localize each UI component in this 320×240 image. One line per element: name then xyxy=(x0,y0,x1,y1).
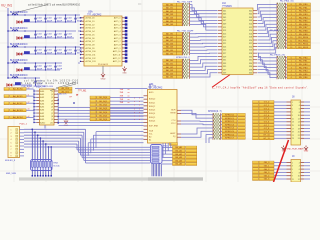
svg-text:RU_FB6: RU_FB6 xyxy=(299,77,308,79)
svg-text:xx: xx xyxy=(128,99,130,101)
svg-text:5: 5 xyxy=(292,169,293,171)
svg-text:Q6: Q6 xyxy=(51,110,53,112)
svg-text:x3: x3 xyxy=(28,109,30,111)
svg-text:KPROC6: KPROC6 xyxy=(225,134,235,136)
svg-text:x: x xyxy=(134,108,135,110)
svg-text:KPROC0: KPROC0 xyxy=(225,115,235,117)
svg-text:308: 308 xyxy=(249,20,252,22)
svg-text:B0DQ5: B0DQ5 xyxy=(149,117,155,119)
svg-text:GT_3: GT_3 xyxy=(264,112,270,114)
svg-text:20: 20 xyxy=(298,132,300,134)
svg-text:4: 4 xyxy=(299,105,300,107)
svg-text:B0_DQ1: B0_DQ1 xyxy=(99,101,108,103)
svg-text:318: 318 xyxy=(249,37,252,39)
svg-text:x: x xyxy=(134,119,135,121)
svg-text:AD_B1: AD_B1 xyxy=(166,36,174,39)
svg-text:7: 7 xyxy=(291,27,292,29)
svg-text:C104: C104 xyxy=(67,17,72,19)
svg-text:335: 335 xyxy=(223,66,226,68)
svg-text:11: 11 xyxy=(290,40,292,42)
svg-text:x: x xyxy=(139,101,140,103)
svg-text:A1T00_D13: A1T00_D13 xyxy=(86,60,96,63)
svg-text:A1T00_D9: A1T00_D9 xyxy=(86,47,95,50)
svg-text:338: 338 xyxy=(249,69,252,71)
svg-text:C104: C104 xyxy=(57,33,62,35)
svg-text:3: 3 xyxy=(11,136,12,138)
svg-text:B0_DQ3: B0_DQ3 xyxy=(99,108,108,110)
svg-text:U34: U34 xyxy=(149,83,154,86)
svg-text:329: 329 xyxy=(223,56,226,58)
svg-text:Q9: Q9 xyxy=(51,119,53,121)
svg-text:GND: GND xyxy=(101,79,106,81)
svg-text:RU_FB3: RU_FB3 xyxy=(299,67,308,69)
svg-text:C104: C104 xyxy=(57,49,62,51)
svg-text:2: 2 xyxy=(11,133,12,135)
svg-text:11: 11 xyxy=(292,179,294,181)
svg-text:100nF: 100nF xyxy=(37,69,43,71)
svg-text:4: 4 xyxy=(291,71,292,73)
svg-text:100nF: 100nF xyxy=(47,69,53,71)
svg-text:332: 332 xyxy=(249,60,252,62)
svg-text:A1T00_D11: A1T00_D11 xyxy=(86,54,96,57)
svg-text:RU_FB4: RU_FB4 xyxy=(299,71,308,73)
svg-text:5: 5 xyxy=(291,21,292,23)
svg-text:314: 314 xyxy=(249,30,252,32)
svg-text:AD_B4: AD_B4 xyxy=(166,72,174,75)
svg-text:KPROC5: KPROC5 xyxy=(225,131,235,133)
svg-text:A1: A1 xyxy=(149,139,151,142)
svg-text:Q4: Q4 xyxy=(51,103,53,105)
svg-text:8: 8 xyxy=(299,172,300,174)
svg-text:7: 7 xyxy=(292,172,293,174)
svg-text:A0T5_9: A0T5_9 xyxy=(114,47,121,50)
svg-text:A0_BCK2: A0_BCK2 xyxy=(13,102,23,105)
svg-text:2: 2 xyxy=(291,64,292,66)
svg-text:B0_A0: B0_A0 xyxy=(175,146,182,149)
svg-text:C104: C104 xyxy=(57,17,62,19)
svg-text:10: 10 xyxy=(298,176,300,178)
svg-text:GT_8: GT_8 xyxy=(264,128,270,130)
svg-text:8: 8 xyxy=(291,31,292,33)
svg-text:col filtering fix 5% 1: col filtering fix 5% 10SC9-C00 xyxy=(24,79,79,82)
svg-text:Q7: Q7 xyxy=(51,113,53,115)
svg-text:AGBT: AGBT xyxy=(170,132,176,135)
svg-text:8x 10k: 8x 10k xyxy=(54,165,61,167)
svg-text:4: 4 xyxy=(291,17,292,19)
svg-text:324: 324 xyxy=(249,46,252,48)
svg-text:1: 1 xyxy=(292,102,293,104)
svg-text:RU_FB5: RU_FB5 xyxy=(299,74,308,76)
svg-text:CTL/: CTL/ xyxy=(171,120,176,122)
svg-text:B0_DQ5: B0_DQ5 xyxy=(99,115,108,117)
svg-text:100nF: 100nF xyxy=(37,37,43,39)
svg-text:A1T00_D5: A1T00_D5 xyxy=(86,33,95,36)
svg-text:xx: xx xyxy=(128,89,130,91)
svg-text:A0T5_12: A0T5_12 xyxy=(113,57,121,60)
svg-text:310: 310 xyxy=(249,23,252,25)
svg-text:12: 12 xyxy=(290,44,292,46)
svg-text:315: 315 xyxy=(223,33,226,35)
svg-text:A0T5_6: A0T5_6 xyxy=(114,37,121,40)
svg-text:VU_IN1: VU_IN1 xyxy=(1,4,12,8)
svg-text:B0_DQ2: B0_DQ2 xyxy=(99,105,108,107)
svg-text:A1T00_D4: A1T00_D4 xyxy=(86,30,95,33)
svg-text:GB_5: GB_5 xyxy=(264,179,270,181)
svg-text:5: 5 xyxy=(291,74,292,76)
svg-text:RU_FB0: RU_FB0 xyxy=(299,4,308,6)
svg-text:14: 14 xyxy=(298,122,300,124)
svg-text:24: 24 xyxy=(298,138,300,140)
svg-text:A0T5_10: A0T5_10 xyxy=(113,50,121,53)
svg-text:GB_0: GB_0 xyxy=(264,162,270,164)
svg-text:B0_DQ6: B0_DQ6 xyxy=(99,119,108,121)
svg-text:col brd| Nole 10273 col w: col brd| Nole 10273 col www.BLKORB40010 xyxy=(28,4,81,7)
svg-text:16: 16 xyxy=(298,125,300,127)
svg-text:3 cap BOM2 mode: 10SC: 3 cap BOM2 mode: 10SC9-C00 xyxy=(21,83,79,85)
svg-text:317: 317 xyxy=(223,37,226,39)
svg-text:301: 301 xyxy=(223,10,226,12)
svg-text:RU_FB2: RU_FB2 xyxy=(299,11,308,13)
svg-text:A1T00_D0: A1T00_D0 xyxy=(86,17,95,20)
svg-text:9: 9 xyxy=(291,34,292,36)
svg-text:RU_FB10: RU_FB10 xyxy=(298,37,308,39)
svg-text:325: 325 xyxy=(223,50,226,52)
svg-text:xx: xx xyxy=(128,102,130,104)
svg-text:100nF: 100nF xyxy=(47,37,53,39)
svg-text:GND: GND xyxy=(122,73,127,75)
svg-text:RU_FB7: RU_FB7 xyxy=(299,27,308,29)
svg-text:302: 302 xyxy=(249,10,252,12)
svg-text:KPROC2(0..7): KPROC2(0..7) xyxy=(176,57,190,59)
svg-text:B0DQ3: B0DQ3 xyxy=(149,110,155,112)
svg-text:RU_FB12: RU_FB12 xyxy=(298,44,308,46)
svg-text:▶: ▶ xyxy=(77,93,79,96)
svg-text:4: 4 xyxy=(11,139,12,141)
svg-text:AD_B2: AD_B2 xyxy=(166,66,174,69)
svg-text:AD_B0: AD_B0 xyxy=(166,33,174,36)
svg-text:C104: C104 xyxy=(67,49,72,51)
svg-text:C104: C104 xyxy=(57,65,62,67)
svg-text:100nF: 100nF xyxy=(67,21,73,23)
svg-text:336: 336 xyxy=(249,66,252,68)
svg-text:RU_FB5: RU_FB5 xyxy=(299,21,308,23)
svg-text:A0T5_2: A0T5_2 xyxy=(114,23,121,26)
svg-text:AD_B4: AD_B4 xyxy=(166,46,174,49)
svg-text:x: x xyxy=(139,105,140,107)
svg-text:323: 323 xyxy=(223,46,226,48)
svg-text:22: 22 xyxy=(298,135,300,137)
svg-text:x: x xyxy=(134,112,135,114)
svg-text:KPROC3: KPROC3 xyxy=(225,124,235,126)
svg-text:A1T00_D10: A1T00_D10 xyxy=(86,50,96,53)
svg-text:328: 328 xyxy=(249,53,252,55)
svg-text:6: 6 xyxy=(299,108,300,110)
svg-text:4: 4 xyxy=(299,166,300,168)
svg-text:100nF: 100nF xyxy=(67,37,73,39)
svg-text:AD_B2: AD_B2 xyxy=(166,10,174,13)
svg-text:A015: A015 xyxy=(149,91,153,94)
svg-text:B0DQ6: B0DQ6 xyxy=(149,121,155,123)
svg-text:x: x xyxy=(134,101,135,103)
svg-text:334: 334 xyxy=(249,63,252,65)
svg-text:RU_FB9: RU_FB9 xyxy=(299,34,308,36)
svg-text:???_A0CPA2: ???_A0CPA2 xyxy=(87,14,102,17)
svg-text:18: 18 xyxy=(298,128,300,130)
svg-text:Q1: Q1 xyxy=(51,94,53,96)
svg-text:A0T5_13: A0T5_13 xyxy=(113,60,121,63)
svg-text:???_M1: ???_M1 xyxy=(78,91,87,93)
svg-text:TERM: TERM xyxy=(170,112,176,114)
svg-text:x4: x4 xyxy=(28,116,30,118)
svg-text:3: 3 xyxy=(292,166,293,168)
svg-text:17: 17 xyxy=(292,128,294,130)
svg-text:303: 303 xyxy=(223,14,226,16)
svg-text:PJ45_1: PJ45_1 xyxy=(20,123,28,125)
svg-text:C104: C104 xyxy=(37,65,42,67)
svg-text:1: 1 xyxy=(11,129,12,131)
svg-text:9: 9 xyxy=(292,115,293,117)
svg-text:C104: C104 xyxy=(37,17,42,19)
svg-text:100nF: 100nF xyxy=(57,53,63,55)
svg-text:326: 326 xyxy=(249,50,252,52)
svg-text:Q8: Q8 xyxy=(51,116,53,118)
svg-text:AD_B5: AD_B5 xyxy=(166,20,174,23)
svg-text:333: 333 xyxy=(223,63,226,65)
svg-text:RU_FB11: RU_FB11 xyxy=(299,40,309,42)
svg-text:1: 1 xyxy=(292,162,293,164)
svg-text:337: 337 xyxy=(223,69,226,71)
svg-text:x1: x1 xyxy=(28,95,30,97)
svg-text:12: 12 xyxy=(298,118,300,120)
svg-text:RU_FB8: RU_FB8 xyxy=(299,31,308,33)
svg-text:AD_B3: AD_B3 xyxy=(166,13,174,16)
svg-text:100nF: 100nF xyxy=(57,37,63,39)
svg-text:AD_B3: AD_B3 xyxy=(166,69,174,72)
svg-text:A0T5_1: A0T5_1 xyxy=(114,20,121,23)
svg-text:3: 3 xyxy=(292,105,293,107)
svg-text:C_???_C4_I bap/Ne "Abt35pdf": C_???_C4_I bap/Ne "Abt35pdf" pag 16 "Dat… xyxy=(212,87,308,90)
svg-text:xx: xx xyxy=(128,92,130,94)
svg-text:KPROC1: KPROC1 xyxy=(225,118,235,120)
svg-text:8: 8 xyxy=(299,112,300,114)
svg-text:A0: A0 xyxy=(149,136,151,139)
svg-text:GND: GND xyxy=(304,151,309,153)
svg-text:A0_BCK4: A0_BCK4 xyxy=(13,116,23,119)
svg-text:AD_B2: AD_B2 xyxy=(166,39,174,42)
svg-text:RU_FB4: RU_FB4 xyxy=(299,17,308,19)
svg-text:AD_B1: AD_B1 xyxy=(166,7,174,10)
svg-text:GT_5: GT_5 xyxy=(264,118,270,120)
svg-text:SCL: SCL xyxy=(149,134,153,136)
svg-text:GT_1: GT_1 xyxy=(264,105,270,107)
svg-text:307: 307 xyxy=(223,20,226,22)
svg-text:CTL2: CTL2 xyxy=(171,123,176,125)
svg-text:321: 321 xyxy=(223,43,226,45)
svg-text:1: 1 xyxy=(291,7,292,9)
svg-text:6: 6 xyxy=(291,24,292,26)
svg-text:311: 311 xyxy=(223,27,226,29)
svg-text:P100 A015: P100 A015 xyxy=(98,63,109,66)
svg-text:GT_2: GT_2 xyxy=(264,108,270,110)
svg-text:A0T5_7: A0T5_7 xyxy=(114,40,121,43)
svg-text:GT_9: GT_9 xyxy=(264,131,270,133)
svg-text:GND_PLAT_WAV8: GND_PLAT_WAV8 xyxy=(287,147,305,150)
svg-text:C104: C104 xyxy=(47,49,52,51)
svg-text:304: 304 xyxy=(249,14,252,16)
svg-text:AD_B6: AD_B6 xyxy=(166,23,174,26)
svg-text:x: x xyxy=(139,116,140,118)
svg-text:15: 15 xyxy=(292,125,294,127)
svg-text:KPROC(0..7): KPROC(0..7) xyxy=(208,111,222,113)
svg-text:B0DQ4: B0DQ4 xyxy=(149,113,155,115)
svg-text:2: 2 xyxy=(291,11,292,13)
svg-text:GT_6: GT_6 xyxy=(264,122,270,124)
svg-text:9: 9 xyxy=(11,156,12,158)
svg-text:Q10: Q10 xyxy=(50,122,53,124)
svg-text:19: 19 xyxy=(292,132,294,134)
svg-text:RU_FB13: RU_FB13 xyxy=(298,47,308,49)
svg-text:5: 5 xyxy=(292,108,293,110)
svg-text:KPROC4: KPROC4 xyxy=(225,128,235,130)
svg-text:306: 306 xyxy=(249,17,252,19)
svg-text:x: x xyxy=(139,119,140,121)
svg-text:C104: C104 xyxy=(47,33,52,35)
svg-text:100nF: 100nF xyxy=(57,69,63,71)
svg-text:A0T5_5: A0T5_5 xyxy=(114,33,121,36)
svg-text:A1T00_D12: A1T00_D12 xyxy=(86,57,96,60)
svg-text:KPROC7: KPROC7 xyxy=(225,138,235,140)
svg-text:A0T5_11: A0T5_11 xyxy=(113,54,121,57)
svg-text:A0_BCK3: A0_BCK3 xyxy=(13,109,23,112)
svg-text:0: 0 xyxy=(291,4,292,6)
svg-text:309: 309 xyxy=(223,23,226,25)
svg-text:313: 313 xyxy=(223,30,226,32)
svg-text:KPROC2: KPROC2 xyxy=(225,121,235,123)
svg-text:Q3: Q3 xyxy=(51,100,53,102)
svg-text:B0_DQ0: B0_DQ0 xyxy=(99,97,108,99)
svg-text:100nF: 100nF xyxy=(47,21,53,23)
svg-text:RU_FB6: RU_FB6 xyxy=(299,24,308,26)
svg-text:B0_A1: B0_A1 xyxy=(175,150,182,153)
svg-text:6: 6 xyxy=(11,146,12,148)
svg-text:A0T5_4: A0T5_4 xyxy=(114,30,121,33)
svg-text:M09_55W: M09_55W xyxy=(6,173,17,175)
svg-text:A1T00_D8: A1T00_D8 xyxy=(86,43,95,46)
svg-text:B0DQ2: B0DQ2 xyxy=(149,106,155,108)
svg-text:C104: C104 xyxy=(47,17,52,19)
svg-text:21: 21 xyxy=(292,135,294,137)
svg-text:BUF_ENB: BUF_ENB xyxy=(149,126,158,128)
svg-text:RU_FB1: RU_FB1 xyxy=(299,7,308,9)
svg-text:x: x xyxy=(134,105,135,107)
svg-text:5: 5 xyxy=(11,143,12,145)
svg-text:23: 23 xyxy=(292,138,294,140)
svg-text:RU_FB(0..15): RU_FB(0..15) xyxy=(280,1,294,3)
svg-text:320: 320 xyxy=(249,40,252,42)
svg-text:RU_FB0: RU_FB0 xyxy=(299,57,308,59)
svg-text:AD_B0: AD_B0 xyxy=(166,59,174,62)
svg-text:GT_10: GT_10 xyxy=(263,135,270,137)
svg-text:13: 13 xyxy=(292,122,294,124)
svg-text:A0T5_3: A0T5_3 xyxy=(114,27,121,30)
svg-text:3: 3 xyxy=(291,67,292,69)
svg-text:GT_0: GT_0 xyxy=(264,102,270,104)
svg-text:RU_FB3: RU_FB3 xyxy=(299,14,308,16)
svg-text:339: 339 xyxy=(223,73,226,75)
svg-text:???_A0CPA2: ???_A0CPA2 xyxy=(148,87,163,90)
svg-text:11: 11 xyxy=(292,118,294,120)
svg-text:1: 1 xyxy=(291,61,292,63)
svg-text:10: 10 xyxy=(290,37,292,39)
svg-text:A0_BCK0: A0_BCK0 xyxy=(13,88,23,91)
svg-text:330: 330 xyxy=(249,56,252,58)
svg-text:A0T5_0: A0T5_0 xyxy=(114,17,121,20)
svg-text:x2: x2 xyxy=(28,102,30,104)
svg-text:RU_FB2: RU_FB2 xyxy=(299,64,308,66)
svg-text:xx: xx xyxy=(128,96,130,98)
svg-text:A1T00_D1: A1T00_D1 xyxy=(86,20,95,23)
svg-text:x: x xyxy=(139,97,140,99)
svg-text:100nF: 100nF xyxy=(37,53,43,55)
svg-text:x: x xyxy=(139,112,140,114)
svg-text:GT_7: GT_7 xyxy=(264,125,270,127)
svg-text:100nF: 100nF xyxy=(37,21,43,23)
svg-text:GB_3: GB_3 xyxy=(264,172,270,174)
svg-text:AD_B6: AD_B6 xyxy=(166,52,174,55)
svg-text:8: 8 xyxy=(11,152,12,154)
svg-text:B0_A4: B0_A4 xyxy=(175,159,182,162)
svg-text:x: x xyxy=(134,97,135,99)
svg-text:12: 12 xyxy=(298,179,300,181)
svg-text:Q0: Q0 xyxy=(51,91,53,93)
svg-text:x0: x0 xyxy=(28,87,30,89)
svg-text:A0T5_8: A0T5_8 xyxy=(114,43,121,46)
svg-text:312: 312 xyxy=(249,27,252,29)
svg-text:GT_11: GT_11 xyxy=(263,138,270,140)
svg-text:327: 327 xyxy=(223,53,226,55)
svg-text:BUF/: BUF/ xyxy=(171,109,176,111)
svg-text:RU_FB1: RU_FB1 xyxy=(299,61,308,63)
svg-text:2: 2 xyxy=(299,102,300,104)
svg-text:Q2: Q2 xyxy=(51,97,53,99)
svg-text:7: 7 xyxy=(11,149,12,151)
svg-text:305: 305 xyxy=(223,17,226,19)
svg-text:322: 322 xyxy=(249,43,252,45)
svg-text:A1T00_D3: A1T00_D3 xyxy=(86,27,95,30)
svg-text:GT_4: GT_4 xyxy=(264,115,270,117)
svg-text:A0_CK0: A0_CK0 xyxy=(62,87,70,90)
svg-text:2: 2 xyxy=(299,162,300,164)
svg-text:GB_4: GB_4 xyxy=(264,175,270,177)
svg-text:AD_B5: AD_B5 xyxy=(166,49,174,52)
svg-text:6: 6 xyxy=(291,77,292,79)
svg-text:AD_B4: AD_B4 xyxy=(166,17,174,20)
svg-text:C104: C104 xyxy=(67,33,72,35)
svg-text:3: 3 xyxy=(291,14,292,16)
svg-text:100nF: 100nF xyxy=(67,53,73,55)
svg-text:100nF: 100nF xyxy=(57,21,63,23)
svg-text:B0_A2: B0_A2 xyxy=(175,153,182,156)
svg-text:C104: C104 xyxy=(37,33,42,35)
svg-text:B0DQ1: B0DQ1 xyxy=(149,102,155,104)
svg-text:B0_A5: B0_A5 xyxy=(175,163,182,166)
svg-text:GB_2: GB_2 xyxy=(264,169,270,171)
svg-text:A1T00_D2: A1T00_D2 xyxy=(86,23,95,26)
svg-text:10: 10 xyxy=(298,115,300,117)
svg-text:319: 319 xyxy=(223,40,226,42)
svg-text:x: x xyxy=(139,108,140,110)
svg-text:316: 316 xyxy=(249,33,252,35)
